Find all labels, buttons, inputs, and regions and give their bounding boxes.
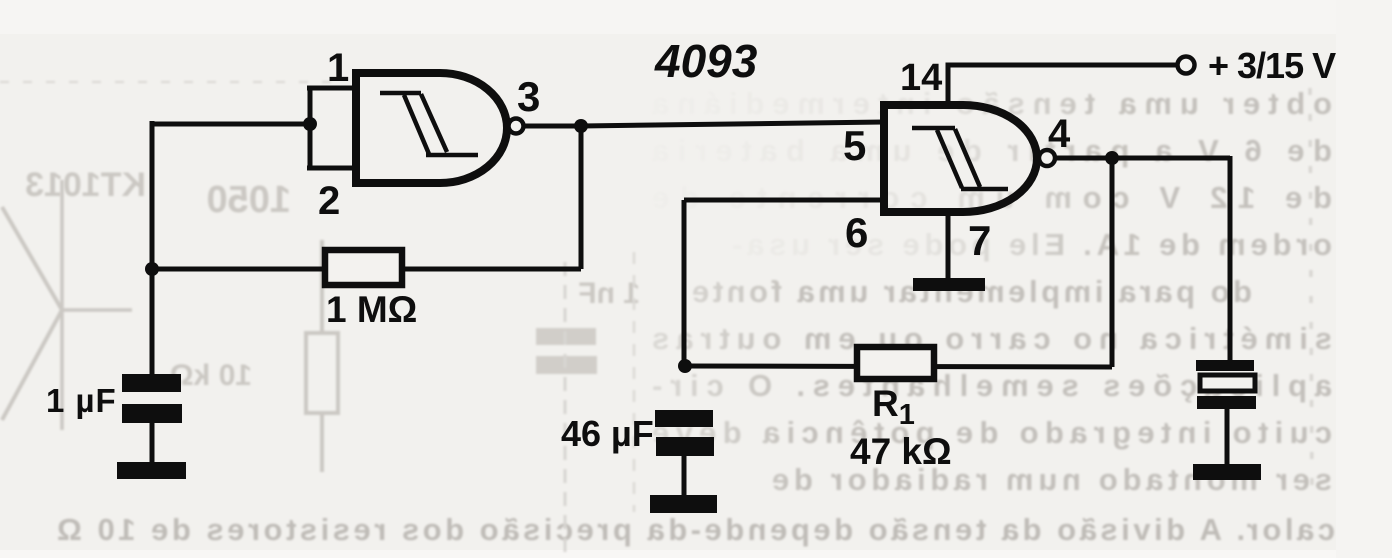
wire pin 7 to ground: [946, 210, 951, 280]
svg-text:obter uma tensão intermediána: obter uma tensão intermediána: [651, 86, 1332, 121]
bleed dotted rule: [0, 81, 345, 83]
piezo transducer plate 1: [1196, 360, 1254, 371]
bleed dashed column rule 1: [564, 262, 567, 558]
svg-text:3: 3: [517, 73, 540, 120]
capacitor C2 46uF plate 2: [656, 437, 714, 456]
svg-text:4: 4: [1048, 112, 1071, 156]
svg-text:1050: 1050: [206, 179, 291, 221]
node junction output gate1: [574, 119, 588, 133]
node junction output gate2: [1105, 151, 1119, 165]
page fold dashed line: [1310, 88, 1312, 500]
bleed capacitor hatch: [536, 328, 596, 345]
node junction C2/R1: [678, 359, 692, 373]
nand gate U1B body: [884, 105, 1037, 212]
wire input to gate U1A: [152, 122, 310, 127]
capacitor C2 46uF plate 1: [655, 410, 713, 427]
wire output down to R1: [1110, 158, 1115, 367]
nand gate U1A body: [356, 73, 507, 183]
supply terminal circle: [1178, 57, 1195, 74]
bleed resistor outline: [306, 333, 338, 413]
resistor R1 body: [857, 347, 934, 379]
wire pin 5 input (drawn above) / wire pin 6 input: [684, 198, 884, 203]
inverter bubble U1B output pin 4: [1039, 150, 1055, 166]
svg-text:10 kΩ: 10 kΩ: [170, 359, 252, 392]
svg-text:2: 2: [318, 179, 340, 223]
svg-text:46 µF: 46 µF: [561, 413, 654, 454]
svg-text:1: 1: [327, 46, 349, 90]
ground bar pin 7: [913, 278, 985, 291]
wire left vertical: [150, 121, 155, 374]
wire gate1 output to gate2 pin 5: [524, 122, 884, 126]
svg-text:KT1013: KT1013: [25, 166, 146, 204]
svg-text:47 kΩ: 47 kΩ: [850, 431, 952, 472]
capacitor C1 plate 1: [122, 374, 181, 392]
wire input bracket U1A pins 1-2: [307, 88, 356, 168]
ground bar C2: [650, 495, 717, 513]
svg-text:4093: 4093: [654, 35, 758, 87]
svg-text:7: 7: [968, 217, 991, 264]
svg-text:1 MΩ: 1 MΩ: [326, 289, 417, 330]
svg-text:1 nF: 1 nF: [578, 277, 640, 310]
svg-text:5: 5: [843, 122, 866, 169]
wire R1 horizontal: [685, 366, 1112, 367]
svg-text:14: 14: [900, 57, 942, 99]
resistor 1 Mohm: [325, 250, 402, 285]
bleed op-amp triangle: [2, 207, 62, 420]
wire feedback vertical: [579, 126, 584, 269]
ground bar C1: [117, 462, 186, 479]
schmitt symbol U1B: [912, 128, 1008, 189]
wire piezo to ground: [1225, 409, 1230, 465]
svg-text:+ 3/15 V: + 3/15 V: [1208, 45, 1336, 86]
wire C2 to ground: [682, 456, 687, 496]
ground bar piezo: [1193, 464, 1261, 480]
schmitt symbol U1A: [380, 93, 478, 155]
inverter bubble U1A output pin 3: [509, 119, 524, 134]
wire to piezo: [1228, 156, 1233, 360]
wire feedback horizontal: [152, 267, 581, 272]
svg-text:ordem de 1A. Ele pode ser usa-: ordem de 1A. Ele pode ser usa-: [732, 227, 1332, 262]
bleed wire vertical 2: [320, 240, 324, 472]
capacitor C1 plate 2: [122, 404, 182, 423]
wire gate2 output: [1055, 156, 1230, 161]
svg-text:6: 6: [845, 209, 868, 256]
bleed dashed column rule 2: [633, 252, 636, 512]
svg-text:1 µF: 1 µF: [46, 382, 117, 419]
node junction input: [303, 117, 317, 131]
bleed wire horizontal: [62, 308, 132, 312]
wire pin6 vertical down: [682, 200, 687, 366]
piezo transducer crystal body: [1200, 375, 1255, 391]
node junction feedback left: [145, 262, 159, 276]
svg-text:calor. A divisão da tensão dep: calor. A divisão da tensão depende-da pr…: [57, 512, 1335, 547]
wire pin 14 to supply: [948, 65, 1177, 107]
piezo transducer plate 2: [1197, 396, 1256, 409]
wire C1 to ground: [150, 423, 155, 463]
bleed wire vertical: [60, 180, 64, 430]
